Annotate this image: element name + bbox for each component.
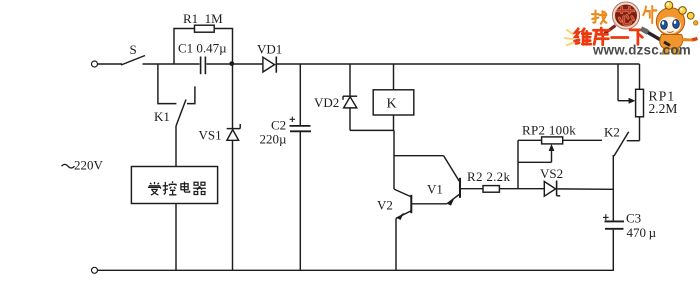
svg-text:220V: 220V <box>74 158 104 173</box>
svg-text:R2 2.2k: R2 2.2k <box>467 169 510 184</box>
svg-text:2.2M: 2.2M <box>649 101 678 116</box>
svg-text:220µ: 220µ <box>260 132 288 147</box>
svg-text:VS1: VS1 <box>199 128 222 143</box>
svg-text:K2: K2 <box>604 125 620 140</box>
svg-text:K1: K1 <box>154 109 170 124</box>
svg-text:C3: C3 <box>626 211 641 226</box>
svg-text:VS2: VS2 <box>540 166 563 181</box>
svg-text:VD1: VD1 <box>257 42 282 57</box>
svg-text:www.dzsc.com: www.dzsc.com <box>592 43 691 58</box>
svg-text:R1 1M: R1 1M <box>183 11 223 26</box>
svg-text:S: S <box>130 42 137 57</box>
svg-text:RP2 100k: RP2 100k <box>522 123 576 138</box>
svg-text:V2: V2 <box>377 198 393 213</box>
svg-text:V1: V1 <box>427 182 443 197</box>
svg-text:K: K <box>387 97 397 112</box>
svg-text:C2: C2 <box>271 118 286 133</box>
svg-text:VD2: VD2 <box>314 95 339 110</box>
svg-text:470 µ: 470 µ <box>627 225 657 240</box>
svg-text:C1 0.47µ: C1 0.47µ <box>178 41 227 56</box>
